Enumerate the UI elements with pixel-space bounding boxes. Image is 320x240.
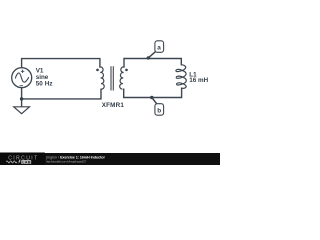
node a flag (147, 56, 150, 59)
bottom watermark bar (0, 153, 220, 165)
wire top-left rail V1 to XFMR1 primary (22, 59, 100, 68)
ground (14, 107, 30, 114)
junction node under V1 (20, 97, 23, 100)
transformer XFMR1 primary winding (100, 67, 104, 89)
logo bolt (18, 160, 21, 165)
wire bottom-right rail XFMR1 secondary to L1 (124, 88, 182, 97)
logo squiggle (6, 161, 17, 163)
svg-text:LAB: LAB (22, 160, 30, 164)
node b flag (150, 96, 153, 99)
svg-text:http://circuitlab.com/c/hega/l: http://circuitlab.com/c/hega/luapa527 (46, 159, 87, 163)
transformer XFMR1 secondary winding (120, 67, 124, 89)
V1 minus sign (20, 85, 23, 87)
wire top-right rail XFMR1 secondary to L1 (124, 59, 181, 67)
svg-text:XFMR1: XFMR1 (102, 102, 125, 109)
svg-text:a: a (157, 44, 161, 51)
wire bottom-left rail V1 to XFMR1 primary (22, 88, 101, 107)
transformer polarity dot secondary (125, 69, 128, 72)
transformer core (111, 66, 113, 90)
svg-text:16 mH: 16 mH (189, 77, 208, 84)
svg-text:50 Hz: 50 Hz (36, 81, 53, 88)
inductor L1 coil (176, 65, 186, 89)
svg-text:b: b (157, 107, 161, 114)
V1 sine wave (15, 73, 28, 82)
CircuitLab logo box (0, 153, 45, 166)
transformer polarity dot primary (96, 69, 99, 72)
V1 plus sign (21, 70, 24, 73)
voltage source V1 (12, 68, 32, 88)
logo LAB badge (21, 160, 31, 164)
